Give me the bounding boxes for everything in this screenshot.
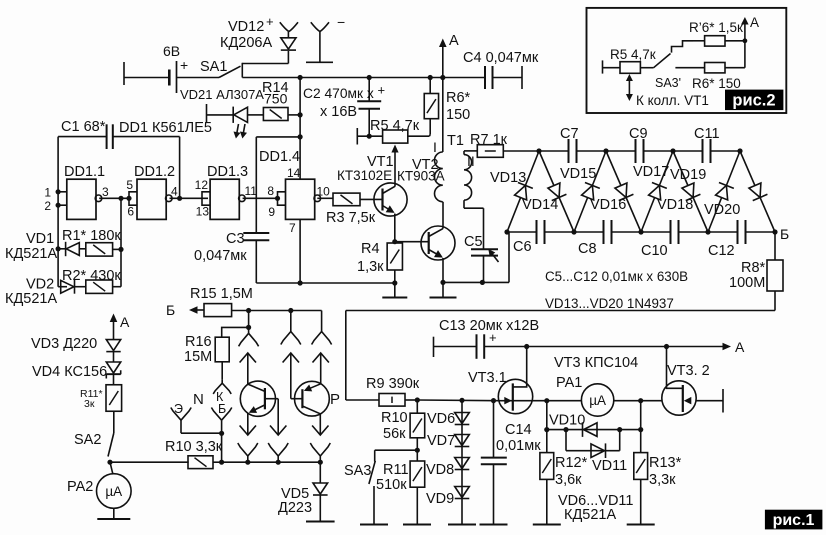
- ladder top rail with C7 C9 C11: [539, 150, 569, 152]
- svg-text:VD13...VD20 1N4937: VD13...VD20 1N4937: [545, 296, 674, 311]
- svg-text:VT3. 2: VT3. 2: [667, 363, 710, 379]
- svg-text:C6: C6: [513, 239, 532, 255]
- wire R5 to R6: [408, 135, 430, 137]
- svg-text:R6* 150: R6* 150: [692, 76, 741, 91]
- svg-text:R6*: R6*: [446, 90, 471, 106]
- wire R14 to rail drop: [288, 114, 300, 116]
- B rail right segment: [346, 310, 775, 312]
- svg-text:DD1.4: DD1.4: [259, 149, 300, 165]
- svg-text:C4 0,047мк: C4 0,047мк: [463, 50, 539, 66]
- svg-text:+: +: [378, 83, 386, 98]
- svg-text:VD4 КС156: VD4 КС156: [32, 364, 107, 380]
- svg-text:DD1 К561ЛЕ5: DD1 К561ЛЕ5: [119, 120, 212, 136]
- svg-text:К колл. VT1: К колл. VT1: [636, 93, 709, 108]
- wire feedback left: [58, 136, 107, 138]
- svg-text:VD13: VD13: [490, 170, 526, 186]
- diode VD17: [641, 151, 673, 232]
- panel bottom rail: [222, 461, 321, 463]
- R5 wiper arrow from VT1 collector: [394, 148, 396, 187]
- svg-text:R13*: R13*: [649, 455, 682, 471]
- svg-text:R11: R11: [383, 462, 409, 478]
- svg-text:0,047мк: 0,047мк: [194, 248, 247, 264]
- svg-text:C8: C8: [578, 241, 597, 257]
- diode VD16: [606, 151, 641, 232]
- svg-text:DD1.1: DD1.1: [64, 164, 105, 180]
- capacitor C14 0.01uF: [493, 401, 495, 458]
- svg-text:R3 7,5к: R3 7,5к: [326, 210, 376, 226]
- svg-text:R8*: R8*: [741, 260, 766, 276]
- svg-text:VD1: VD1: [26, 231, 54, 247]
- svg-text:VT3.1: VT3.1: [468, 370, 507, 386]
- svg-text:1,3к: 1,3к: [357, 259, 384, 275]
- plug arrow up col3: [313, 353, 329, 363]
- svg-text:R16: R16: [185, 334, 212, 350]
- svg-text:3,6к: 3,6к: [555, 472, 582, 488]
- svg-text:A: A: [120, 314, 130, 330]
- inset R5 wiper arrow to VT1 collector: [628, 76, 630, 99]
- wire: [177, 77, 220, 79]
- svg-text:+: +: [266, 14, 274, 29]
- svg-text:Б: Б: [780, 226, 789, 242]
- resistor R8* 100M: [774, 232, 776, 260]
- wire VT1 base wire to VT2: [395, 241, 429, 243]
- node junction C2: [367, 75, 372, 80]
- resistor R13* 3.3k: [640, 401, 642, 453]
- wire: [124, 77, 169, 79]
- svg-text:3к: 3к: [84, 398, 95, 410]
- svg-text:8: 8: [267, 184, 274, 198]
- svg-text:C9: C9: [629, 126, 648, 142]
- socket fork bottom 1: [247, 456, 249, 462]
- A rail: [484, 346, 728, 348]
- plug arrow up col2: [283, 353, 299, 363]
- DD1.4 pin 7 to common: [299, 219, 301, 283]
- main supply rail: [242, 77, 485, 79]
- bottom rail to ladder: [443, 281, 509, 283]
- svg-text:A: A: [449, 33, 459, 49]
- svg-text:II: II: [467, 153, 475, 169]
- node junction T1/A: [440, 75, 445, 80]
- svg-text:R12*: R12*: [555, 455, 588, 471]
- svg-text:C12: C12: [708, 243, 735, 259]
- socket fork top 3: [321, 311, 323, 332]
- resistor R6* 150: [424, 94, 438, 119]
- diode chain VD6-VD9 KD521A: [461, 400, 463, 524]
- svg-text:КД521А: КД521А: [5, 291, 57, 307]
- wire VT2 emitter to ground: [442, 258, 444, 282]
- DD1.4 input tie pins 8,9: [278, 192, 286, 205]
- node junction pin14 drop: [298, 75, 303, 80]
- svg-text:VD19: VD19: [670, 167, 706, 183]
- test transistor NPN socket N: [240, 381, 275, 416]
- capacitor C3 0.047uF: [256, 136, 300, 138]
- svg-text:SA3: SA3: [344, 463, 371, 479]
- svg-text:SA2: SA2: [74, 432, 101, 448]
- svg-text:11: 11: [245, 184, 258, 198]
- socket jack E: [180, 420, 182, 433]
- svg-text:SA1: SA1: [200, 59, 227, 75]
- svg-text:DD1.2: DD1.2: [134, 164, 175, 180]
- svg-text:КД206А: КД206А: [220, 35, 272, 51]
- svg-text:150: 150: [446, 107, 470, 123]
- transformer T1 winding I: [442, 78, 444, 153]
- diode VD18: [673, 151, 708, 232]
- svg-text:R9 390к: R9 390к: [366, 376, 420, 392]
- svg-text:3,3к: 3,3к: [649, 472, 676, 488]
- LED VD21 AL307A terminal bar: [206, 104, 208, 123]
- svg-text:−: −: [337, 14, 345, 30]
- svg-text:C3: C3: [226, 231, 245, 247]
- wire PA1 to VT3.2: [614, 400, 697, 402]
- svg-text:C10: C10: [641, 243, 668, 259]
- svg-text:VD16: VD16: [590, 197, 626, 213]
- svg-text:VD8: VD8: [426, 462, 454, 478]
- LED VD21 AL307A: [232, 107, 234, 123]
- VT3.2 gate terminal bar: [722, 389, 724, 413]
- svg-text:R5 4,7к: R5 4,7к: [610, 47, 656, 62]
- inset switch SA3': [640, 67, 653, 69]
- svg-text:DD1.3: DD1.3: [207, 164, 248, 180]
- svg-text:6В: 6В: [163, 43, 180, 59]
- wire B to R9: [346, 399, 379, 401]
- svg-text:VD14: VD14: [522, 197, 558, 213]
- svg-text:C7: C7: [560, 126, 579, 142]
- svg-text:VD21 АЛ307А: VD21 АЛ307А: [180, 87, 264, 102]
- svg-text:PA2: PA2: [67, 479, 93, 495]
- DD1.2 input tie pins 5,6: [129, 192, 137, 205]
- svg-text:C14: C14: [505, 422, 532, 438]
- svg-text:C11: C11: [694, 126, 720, 142]
- diode VD5 D223: [319, 462, 321, 483]
- svg-text:Б: Б: [166, 302, 175, 318]
- svg-text:VD6: VD6: [427, 411, 455, 427]
- diode VD12 KD206A: [287, 51, 289, 64]
- svg-text:P: P: [330, 391, 340, 408]
- svg-text:C5: C5: [464, 234, 483, 250]
- diode VD20: [740, 151, 775, 232]
- antenna 1 (+): [280, 22, 289, 31]
- wire VT2 collector: [442, 202, 444, 229]
- svg-text:10: 10: [317, 185, 331, 199]
- wire VT3.1 source to PA1: [513, 400, 582, 402]
- socket fork bottom 2: [277, 456, 279, 462]
- svg-text:VD11: VD11: [592, 458, 627, 474]
- svg-text:1: 1: [44, 186, 51, 200]
- svg-text:R7 1к: R7 1к: [470, 132, 508, 148]
- plug arrow down col2: [277, 399, 279, 435]
- inset box fig.2: [587, 8, 787, 113]
- ground under PA2: [113, 508, 115, 519]
- potentiometer R5 4.7k left terminal: [356, 128, 358, 145]
- resistor R7 1k: [464, 150, 477, 152]
- wire DD1.1 out: [99, 197, 129, 199]
- measure rail: [417, 399, 498, 402]
- wire DD1.2 out / feedback node: [170, 197, 209, 199]
- wire pin14 vertical: [299, 78, 301, 181]
- node junction R6: [428, 75, 433, 80]
- diode VD13: [507, 151, 539, 232]
- svg-text:15М: 15М: [184, 349, 212, 365]
- socket fork top 2: [290, 311, 292, 332]
- capacitor C13 20uF terminal: [433, 337, 435, 357]
- svg-text:SA3': SA3': [655, 76, 681, 90]
- svg-text:VD18: VD18: [657, 197, 693, 213]
- svg-text:12: 12: [195, 178, 209, 192]
- svg-text:R5 4,7к: R5 4,7к: [370, 118, 420, 134]
- wire: [207, 114, 234, 116]
- svg-text:3: 3: [102, 185, 109, 199]
- svg-text:7: 7: [289, 221, 296, 235]
- svg-text:R1* 180к: R1* 180к: [62, 228, 121, 244]
- svg-text:C2 470мк x: C2 470мк x: [303, 86, 374, 101]
- svg-text:5: 5: [126, 178, 133, 192]
- plug arrow down col1: [240, 426, 256, 436]
- svg-text:µA: µA: [105, 484, 122, 499]
- svg-text:T1: T1: [447, 133, 464, 149]
- switch SA1: [219, 66, 241, 77]
- ladder bottom rail with C6 C8 C10 C12: [507, 231, 537, 233]
- inset node A arrow: [744, 20, 746, 41]
- svg-text:R4: R4: [361, 241, 380, 257]
- svg-text:R10: R10: [381, 410, 408, 426]
- svg-text:A: A: [750, 15, 759, 30]
- svg-text:+: +: [489, 330, 497, 345]
- svg-text:PA1: PA1: [556, 375, 582, 391]
- wire VT3.1 source junction R12: [546, 401, 548, 453]
- svg-text:6: 6: [127, 205, 134, 219]
- svg-text:A: A: [735, 339, 745, 355]
- svg-text:C5...C12 0,01мк x 630В: C5...C12 0,01мк x 630В: [545, 269, 688, 284]
- resistor R16 15M: [222, 327, 249, 337]
- battery GB1 6V: [168, 70, 171, 86]
- diode VD14: [539, 151, 574, 232]
- svg-text:VD10: VD10: [549, 413, 585, 429]
- fig.2 label: [725, 90, 783, 111]
- node A arrow up: [442, 42, 444, 78]
- svg-text:750: 750: [264, 91, 288, 107]
- wire VT1 emitter: [394, 214, 396, 244]
- transformer T1 winding II: [464, 155, 472, 201]
- plug arrow up col1: [240, 353, 256, 363]
- diode VD19: [708, 151, 740, 232]
- socket jack B: [221, 420, 223, 433]
- svg-text:VD9: VD9: [426, 491, 454, 507]
- inset R5 left terminal: [602, 60, 604, 73]
- plug arrow down col3: [312, 426, 328, 436]
- capacitor C2 470uF: [368, 78, 370, 102]
- ground under R4: [394, 283, 396, 298]
- svg-text:рис.1: рис.1: [773, 512, 815, 529]
- socket fork bottom 3: [319, 456, 321, 462]
- svg-text:VD17: VD17: [633, 164, 669, 180]
- svg-text:VD3 Д220: VD3 Д220: [31, 336, 97, 352]
- wire feedback right: [113, 136, 180, 138]
- svg-text:VD12: VD12: [228, 19, 264, 35]
- svg-text:VD15: VD15: [560, 166, 596, 182]
- probe plug K: [221, 380, 223, 383]
- svg-text:C1 68*: C1 68*: [61, 119, 106, 135]
- wire DD1.4 out to R3: [317, 197, 333, 199]
- svg-text:4: 4: [171, 185, 178, 199]
- DD1.3 input tie pins 12,13: [202, 192, 210, 205]
- wire to R10: [110, 461, 189, 463]
- svg-text:Э: Э: [174, 402, 183, 416]
- svg-text:0,01мк: 0,01мк: [496, 438, 541, 454]
- svg-text:КД521А: КД521А: [5, 246, 57, 262]
- svg-text:R’6* 1,5к: R’6* 1,5к: [689, 20, 743, 35]
- svg-text:13: 13: [196, 205, 210, 219]
- B rail left segment: [232, 310, 322, 312]
- svg-text:µA: µA: [589, 393, 606, 408]
- svg-text:VD7: VD7: [427, 433, 455, 449]
- svg-text:2: 2: [44, 199, 51, 213]
- svg-text:R10 3,3к: R10 3,3к: [165, 439, 223, 455]
- svg-text:N: N: [193, 391, 204, 408]
- svg-text:КТ3102Е: КТ3102Е: [337, 168, 392, 183]
- svg-text:VD20: VD20: [704, 202, 740, 218]
- svg-text:КД521А: КД521А: [564, 507, 616, 523]
- antenna 2 (-) counterpoise: [306, 61, 333, 63]
- diode VD11 KD521A: [565, 430, 567, 451]
- svg-text:14: 14: [287, 166, 301, 180]
- svg-text:9: 9: [268, 205, 275, 219]
- B rail drop to R9: [345, 311, 347, 401]
- svg-text:рис.2: рис.2: [732, 92, 775, 110]
- svg-text:56к: 56к: [383, 426, 406, 442]
- svg-text:VT3 КПС104: VT3 КПС104: [554, 355, 638, 371]
- DD1.1 input pins 1,2: [58, 191, 67, 193]
- socket fork top 1: [248, 311, 250, 334]
- battery GB 6V negative terminal bar: [123, 62, 125, 85]
- diode VD15: [574, 151, 606, 232]
- wire DD1.1 output vertical: [120, 198, 122, 286]
- node junction SA2/PA2: [107, 460, 112, 465]
- svg-text:+: +: [180, 57, 188, 73]
- common rail under gates: [256, 282, 395, 284]
- svg-text:R15 1,5М: R15 1,5М: [190, 286, 253, 302]
- test transistor PNP socket P: [295, 381, 330, 416]
- svg-text:Б: Б: [218, 402, 226, 416]
- wire DD1.3 out to DD1.4: [243, 197, 278, 199]
- svg-text:x 16В: x 16В: [320, 104, 357, 120]
- wire to VD12: [242, 63, 288, 65]
- svg-text:100М: 100М: [729, 275, 765, 291]
- svg-text:Д223: Д223: [278, 500, 312, 516]
- svg-text:I: I: [433, 139, 437, 155]
- fig.1 label: [765, 510, 823, 530]
- switch SA3: [375, 449, 418, 451]
- svg-text:510к: 510к: [376, 477, 407, 493]
- node A arrow (left column): [113, 317, 115, 341]
